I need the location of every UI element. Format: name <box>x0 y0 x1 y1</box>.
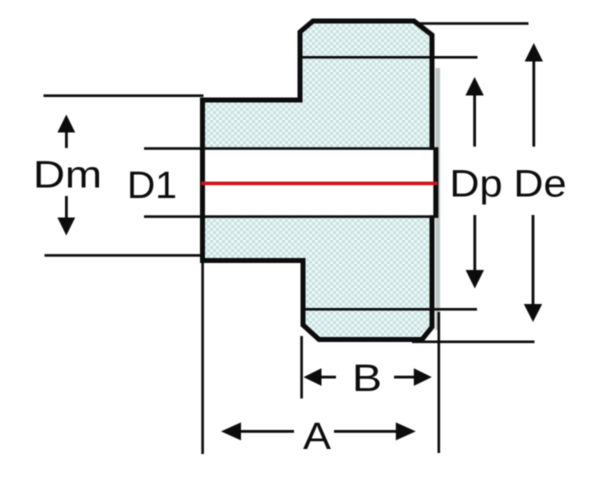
B left arrow <box>304 368 337 386</box>
Dp down arrow <box>466 215 484 289</box>
right side shadow <box>436 68 441 330</box>
svg-text:D1: D1 <box>127 165 177 207</box>
Dp bottom extension line <box>301 308 477 311</box>
Dm bottom extension line <box>45 254 203 257</box>
B/A right extension line <box>438 312 441 453</box>
bore band (white hole through part) <box>205 150 433 215</box>
bore right closure <box>433 147 438 218</box>
A left extension line <box>201 262 204 454</box>
De top extension line <box>418 22 529 25</box>
bore bottom line <box>144 215 434 218</box>
A right arrow <box>334 422 416 440</box>
gear body outline (rim + hub cross-section) <box>203 21 433 340</box>
svg-text:A: A <box>303 416 332 458</box>
Dp top extension line <box>298 56 478 59</box>
Dm top extension line <box>44 94 204 97</box>
svg-text:De: De <box>514 164 567 206</box>
Dp up arrow <box>465 77 483 147</box>
svg-text:Dm: Dm <box>33 155 102 197</box>
bore top line <box>144 147 434 150</box>
red centerline <box>201 182 437 186</box>
De bottom extension line <box>412 341 535 344</box>
B left extension line <box>300 336 303 399</box>
B right arrow <box>394 368 432 386</box>
De up arrow <box>525 43 543 147</box>
svg-text:B: B <box>352 358 382 400</box>
svg-text:Dp: Dp <box>450 164 503 206</box>
Dm up arrow <box>57 115 75 149</box>
A left arrow <box>221 422 294 440</box>
Dm down arrow <box>57 196 75 236</box>
De down arrow <box>524 215 542 322</box>
